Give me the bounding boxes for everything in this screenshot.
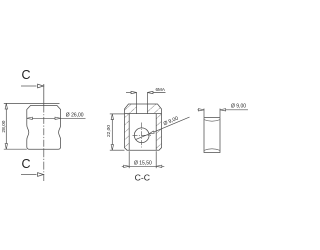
svg-text:Ø 15,50: Ø 15,50 bbox=[134, 160, 152, 166]
svg-text:C: C bbox=[22, 68, 31, 82]
svg-text:Ø 26,00: Ø 26,00 bbox=[66, 113, 84, 119]
svg-text:28,00: 28,00 bbox=[1, 120, 7, 132]
svg-text:C: C bbox=[22, 157, 31, 171]
svg-text:22,00: 22,00 bbox=[106, 125, 112, 137]
svg-text:Ø 9,00: Ø 9,00 bbox=[163, 116, 180, 128]
svg-text:Ø 9,00: Ø 9,00 bbox=[231, 103, 246, 109]
svg-text:C-C: C-C bbox=[135, 172, 150, 182]
svg-text:6MA: 6MA bbox=[156, 87, 166, 92]
